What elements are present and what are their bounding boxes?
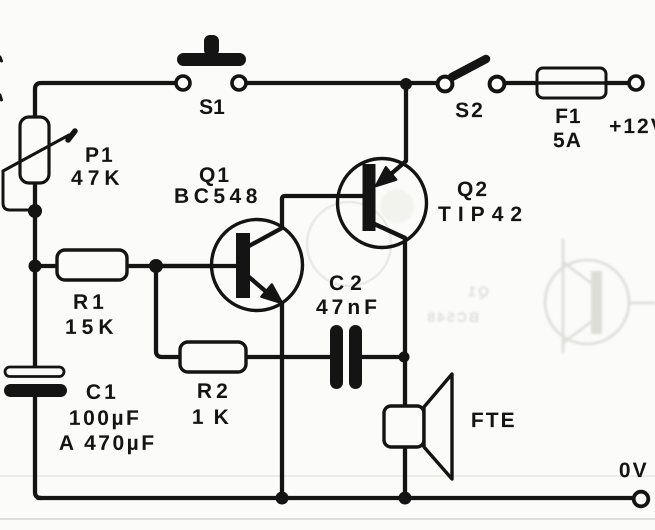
resistor R2 body <box>180 342 246 372</box>
transistor Q2 base bar <box>363 164 376 231</box>
ghost bleed-through transistor (mirrored) <box>545 240 655 352</box>
ghost scan streaks <box>0 475 655 477</box>
wire: bottom ground rail <box>38 496 634 500</box>
transistor Q1 base lead inside <box>156 264 236 268</box>
svg-text:C2: C2 <box>329 272 368 295</box>
svg-text:C1: C1 <box>86 381 119 404</box>
wire: C2 right plate to Q2 collector line <box>362 355 404 359</box>
pushbutton S1 plunger <box>177 35 246 66</box>
node: C2 / Q2 collector junction <box>399 352 410 363</box>
wire: speaker bottom to ground rail <box>403 447 407 498</box>
svg-text:TIP42: TIP42 <box>438 203 529 226</box>
speaker FTE driver square <box>384 406 424 447</box>
transistor Q1 collector lead <box>249 228 282 246</box>
svg-text:FTE: FTE <box>471 409 517 432</box>
svg-text:100µF: 100µF <box>69 407 141 430</box>
pushbutton S1 right terminal <box>232 76 246 90</box>
svg-text:+12V: +12V <box>609 115 655 138</box>
wire: left vertical R1 node down to C1 <box>33 266 37 367</box>
svg-text:0V: 0V <box>619 459 649 482</box>
wire: P1 wiper return to bottom terminal <box>3 171 35 210</box>
wire: top-left corner P1 top to S1 left terminal <box>35 83 183 117</box>
capacitor C2 left plate <box>330 325 343 389</box>
wire: R2 right lead to C2 left plate <box>246 355 330 359</box>
svg-text:R1: R1 <box>73 291 108 314</box>
left edge scan ticks <box>0 57 2 61</box>
terminal: +12V open circle <box>629 76 643 90</box>
svg-text:BC548: BC548 <box>425 309 479 325</box>
wire: Q1 base lead <box>156 264 236 268</box>
ghost bleed-through circle center <box>307 202 391 286</box>
wire: +12V rail junction down to Q2 emitter <box>391 84 406 174</box>
potentiometer P1 body <box>20 117 49 183</box>
transistor Q1 circle <box>212 220 303 311</box>
resistor R1 body <box>57 250 127 280</box>
wire: Q2 collector diagonal and down to speaker <box>370 222 405 406</box>
svg-text:S2: S2 <box>455 99 485 122</box>
svg-text:Q1: Q1 <box>199 164 231 187</box>
potentiometer P1 wiper arrow <box>3 131 75 171</box>
capacitor C1 bottom plate <box>4 384 67 397</box>
node: P1 bottom junction <box>28 204 42 218</box>
svg-text:P1: P1 <box>85 144 115 167</box>
svg-text:5A: 5A <box>553 129 582 152</box>
svg-text:R2: R2 <box>197 380 232 403</box>
fuse F1 body <box>537 68 606 98</box>
transistor Q1 emitter arrowhead <box>261 285 282 304</box>
svg-text:47nF: 47nF <box>316 296 381 319</box>
capacitor C1 top plate <box>5 367 64 377</box>
wire: C1 bottom to ground rail corner <box>35 394 41 498</box>
switch S2 left terminal <box>438 77 453 92</box>
wire: S1 right terminal to S2 left terminal <box>239 81 445 85</box>
svg-text:A 470µF: A 470µF <box>59 432 157 455</box>
speaker FTE horn <box>424 374 452 479</box>
transistor Q2 circle <box>338 159 427 248</box>
svg-text:S1: S1 <box>199 96 225 119</box>
wire: base node down to R2 left lead <box>156 266 180 357</box>
wire: left vertical P1 bottom to R1 node <box>33 183 37 266</box>
node: R1 left junction <box>29 260 42 273</box>
node: ground rail junction at speaker <box>399 492 412 505</box>
svg-text:F1: F1 <box>555 105 582 128</box>
transistor Q2 emitter arrowhead (PNP) <box>376 167 396 186</box>
transistor Q1 emitter lead <box>249 277 270 295</box>
transistor Q2 collector diagonal <box>370 222 405 238</box>
wire: Q1 emitter down to ground rail <box>280 302 284 498</box>
terminal: 0V open circle <box>634 492 649 507</box>
ghost bleed-through text <box>425 283 489 325</box>
wire: R1 right lead to base node <box>126 264 156 268</box>
node: +12V rail junction <box>400 78 412 90</box>
svg-text:1K: 1K <box>192 406 239 429</box>
switch S2 lever <box>452 59 486 77</box>
switch S2 right terminal <box>490 77 505 92</box>
wire: S2 right to +12V terminal through fuse <box>497 81 629 85</box>
svg-text:Q2: Q2 <box>457 178 489 201</box>
transistor Q1 base bar <box>236 233 250 298</box>
node: ground rail junction at Q1 emitter <box>276 492 289 505</box>
pushbutton S1 left terminal <box>176 76 190 90</box>
svg-text:BC548: BC548 <box>174 185 262 208</box>
wire: R1 left lead <box>35 264 57 268</box>
wire: Q1 collector up and right to Q2 base <box>249 196 362 246</box>
svg-text:15K: 15K <box>65 316 119 339</box>
node: Q1 base junction <box>149 259 163 273</box>
svg-text:Q1: Q1 <box>466 283 489 299</box>
svg-text:47K: 47K <box>71 167 125 190</box>
wire: Q1 emitter diagonal <box>249 277 270 295</box>
capacitor C2 right plate <box>349 325 362 389</box>
fuse F1 element wire <box>606 81 629 85</box>
